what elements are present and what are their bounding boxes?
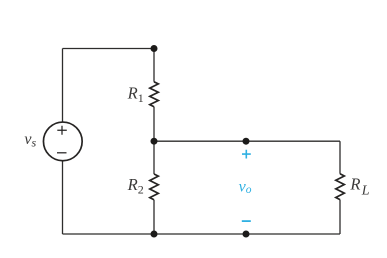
wire bottom: full span [63, 233, 341, 235]
wire left vertical lower: source - terminal down to bottom wire [62, 161, 64, 234]
resistor R1 [150, 82, 159, 107]
wire: R2 to bottom wire [153, 200, 155, 234]
resistor R2 [150, 174, 159, 200]
source plus sign [57, 126, 67, 135]
svg-text:vo: vo [239, 178, 252, 196]
svg-text:vs: vs [24, 131, 36, 149]
wire middle: node B to right branch [154, 140, 340, 142]
node E junction dot (bottom, under vo minus) [243, 231, 250, 238]
svg-text:R2: R2 [127, 175, 144, 197]
vo plus sign (cyan) [242, 150, 251, 159]
wire top: source top to node A [63, 48, 155, 50]
svg-text:R1: R1 [127, 84, 144, 105]
node C junction dot (middle wire) [243, 138, 250, 145]
wire left vertical upper: top corner down to source + terminal [62, 49, 64, 122]
node B junction dot [151, 138, 158, 145]
wire: RL to bottom wire [339, 200, 341, 234]
wire: node B down to R2 [153, 141, 155, 174]
source minus sign [57, 152, 67, 154]
voltage source vs circle [43, 122, 82, 161]
svg-text:RL: RL [349, 174, 369, 198]
node D junction dot (bottom, under R2) [151, 231, 158, 238]
wire right vertical: middle wire down to RL [339, 141, 341, 174]
resistor RL [336, 174, 345, 200]
wire: R1 to node B [153, 107, 155, 142]
node A junction dot [151, 45, 158, 52]
wire: node A down to R1 [153, 49, 155, 82]
vo minus sign (cyan) [242, 220, 251, 222]
